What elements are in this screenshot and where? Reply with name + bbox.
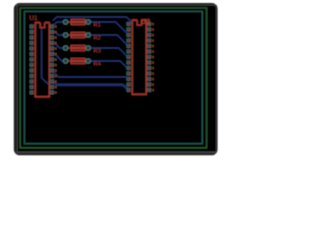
U2 body silkscreen [132, 20, 147, 94]
U1 pads left column [30, 25, 33, 94]
svg-text:U1: U1 [30, 15, 38, 22]
wire: U1 pad to R3 left [52, 43, 63, 48]
U2 pad center drills [128, 23, 151, 91]
screenshot window (black PCB editor canvas, rounded) [15, 4, 217, 155]
wire: U1 pad9 to U2 pad11 (y77 net) [52, 71, 129, 79]
svg-text:R3: R3 [94, 48, 101, 54]
wire: stub from U1 pad1 up to top net [53, 17, 57, 20]
resistor R4 [63, 58, 102, 67]
svg-text:R2: R2 [94, 35, 101, 41]
wire: thick bus U1 to U2 pad13 [52, 81, 128, 90]
board outline outer (green keepout rect) [20, 8, 206, 148]
resistor R1 [63, 19, 101, 28]
wire: U1 pad to R1 left [52, 22, 63, 27]
resistor R2 [63, 32, 101, 41]
U1 pad center drills [31, 26, 54, 94]
wire: vertical through U1 body [42, 29, 53, 88]
svg-text:U2: U2 [141, 17, 150, 26]
U2 notch [137, 20, 141, 25]
wire: R1 right to U2 pad3 [88, 22, 129, 35]
svg-text:R1: R1 [94, 22, 101, 28]
U1 pin number marks [55, 26, 57, 94]
wire: top horizontal net to U2 pad1 [57, 17, 132, 24]
U2 pads right column [147, 22, 150, 91]
svg-text:R4: R4 [94, 61, 102, 67]
U1 notch [40, 23, 44, 28]
U1 body silkscreen [35, 23, 50, 97]
wire: R3 right to U2 pad7 [88, 48, 129, 58]
wire: R4 right to U2 pad9 [88, 61, 129, 70]
page background [0, 0, 219, 164]
resistor R3 [63, 45, 101, 54]
window inner bevel top [16, 4, 216, 6]
U1 pads right column [50, 25, 53, 94]
window inner bevel left [16, 5, 18, 153]
wire: U1 pad to R4 left [52, 54, 63, 61]
window inner bevel bottom [16, 151, 216, 153]
window inner bevel right [215, 5, 217, 153]
U2 pads left column [127, 22, 130, 91]
wire: R2 right to U2 pad5 [88, 35, 129, 47]
board outline inner (teal rect) [24, 11, 202, 143]
U2 pin number marks [152, 23, 154, 91]
wire: U1 pad to R2 left [52, 32, 63, 35]
